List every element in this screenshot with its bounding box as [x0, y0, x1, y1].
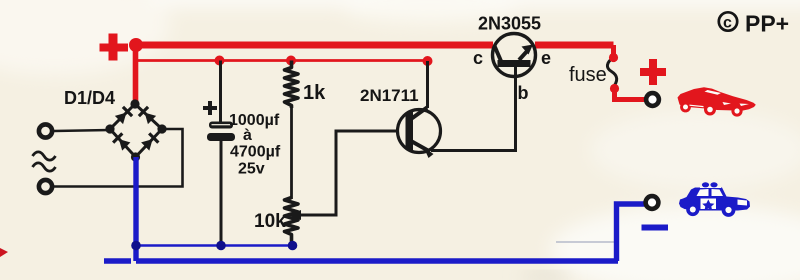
wire capacitor top lead	[219, 61, 222, 122]
capacitor C1 plus sign	[203, 101, 217, 115]
red car icon	[678, 87, 756, 116]
svg-text:c: c	[473, 48, 483, 68]
wire thin red rail	[136, 59, 428, 62]
capacitor C1 plates	[207, 122, 235, 142]
wire blue vertical from bridge	[133, 157, 138, 261]
node fuse bottom	[610, 84, 619, 93]
svg-text:10k: 10k	[254, 211, 286, 232]
node blue capacitor	[216, 241, 226, 251]
wire 2N1711 collector up	[426, 61, 429, 108]
wire blue riser right	[617, 204, 646, 261]
bridge rectifier D1/D4	[110, 104, 162, 157]
node bridge bottom	[131, 152, 140, 161]
wire red vertical to bridge	[133, 45, 139, 103]
wire 2N1711 emitter to 2N3055 base	[431, 67, 516, 151]
wire blue bottom bus	[136, 258, 618, 263]
wire red drop to fuse	[611, 45, 616, 58]
fuse symbol	[607, 58, 616, 89]
svg-text:1k: 1k	[303, 82, 326, 104]
node bridge left	[105, 124, 114, 133]
node capacitor top	[215, 56, 225, 66]
minus symbol output	[642, 225, 669, 231]
diode bridge bottom-left	[112, 132, 131, 151]
terminal + output	[646, 93, 659, 106]
diode bridge top-right	[138, 106, 157, 125]
wire red bus top (left of 2N3055)	[136, 42, 493, 49]
diode bridge bottom-right	[141, 132, 160, 151]
node blue pot	[288, 241, 298, 251]
svg-text:PP+: PP+	[745, 11, 789, 37]
resistor 1k	[285, 61, 299, 109]
node blue left	[131, 241, 141, 251]
wire blue dash stub	[104, 258, 131, 263]
svg-text:c: c	[723, 15, 732, 32]
diode bridge top-left	[114, 106, 133, 125]
node 2N1711 collector	[423, 56, 433, 66]
node bridge right	[157, 124, 166, 133]
wire bridge right to corner	[54, 129, 183, 187]
terminal - output	[646, 196, 659, 209]
svg-text:b: b	[518, 83, 529, 103]
svg-text:fuse: fuse	[569, 64, 607, 86]
ac source squiggle	[33, 152, 56, 171]
wire thin blue rail	[136, 244, 293, 247]
svg-text:2N1711: 2N1711	[360, 86, 419, 105]
potentiometer 10k	[285, 198, 299, 246]
plus symbol output	[640, 59, 666, 85]
svg-text:1000µf: 1000µf	[229, 112, 280, 129]
copyright PP+	[719, 11, 789, 37]
wire wiper to 2N1711 base	[299, 131, 397, 215]
svg-text:à: à	[243, 127, 252, 144]
terminal AC input bottom	[39, 180, 52, 193]
transistor 2N1711	[398, 108, 441, 159]
svg-text:D1/D4: D1/D4	[64, 88, 115, 108]
plus symbol top-left	[100, 34, 129, 61]
transistor 2N3055	[493, 34, 536, 77]
potentiometer wiper arrow	[288, 210, 301, 220]
stray red mark bottom-left	[0, 248, 8, 257]
node fuse top	[609, 53, 618, 62]
wire 1k to 10k	[290, 108, 293, 199]
wire AC top to bridge	[54, 130, 110, 131]
police car icon	[679, 182, 750, 217]
svg-text:e: e	[541, 48, 551, 68]
svg-text:25v: 25v	[238, 161, 265, 178]
wire capacitor bottom lead	[220, 141, 223, 246]
wire red bus top (right of 2N3055)	[535, 42, 614, 49]
node 1k top	[286, 56, 296, 66]
node junction top-left	[129, 38, 143, 52]
node bridge top	[130, 99, 139, 108]
terminal AC input top	[39, 124, 52, 137]
wire fuse to + output	[615, 89, 646, 100]
svg-text:2N3055: 2N3055	[478, 14, 541, 34]
svg-text:4700µf: 4700µf	[230, 144, 281, 161]
